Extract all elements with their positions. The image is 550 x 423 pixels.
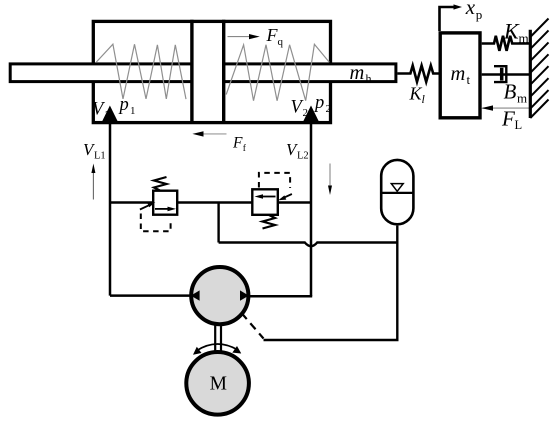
- svg-text:f: f: [243, 143, 247, 154]
- svg-text:F: F: [232, 134, 243, 151]
- svg-text:2: 2: [326, 103, 332, 115]
- damper B_m: [482, 66, 530, 82]
- wire: dashed drain diagonal to pump: [242, 313, 264, 339]
- svg-text:m: m: [451, 63, 466, 85]
- arrow F_q: [228, 34, 260, 39]
- spring left chamber (inside cylinder): [96, 44, 186, 99]
- wire: left pipe vertical: [109, 124, 112, 296]
- piston rod left: [10, 64, 192, 82]
- svg-text:m: m: [350, 62, 365, 84]
- svg-text:F: F: [501, 106, 515, 130]
- relief valve left adjust arrow: [140, 202, 155, 209]
- pump (bidirectional): [191, 267, 249, 324]
- relief valve right adjust arrow: [278, 194, 292, 200]
- relief valve left (box): [153, 191, 177, 215]
- spring K_m (mass to wall): [482, 36, 530, 51]
- svg-text:m: m: [517, 91, 527, 106]
- label p1: [118, 95, 136, 117]
- wire: bottom drain horizontal: [264, 339, 399, 341]
- label p2: [313, 93, 331, 115]
- svg-text:p: p: [313, 93, 324, 113]
- svg-text:l: l: [422, 92, 426, 106]
- svg-text:K: K: [503, 19, 520, 44]
- relief valve right spring: [263, 215, 276, 229]
- label F_f: [232, 134, 247, 154]
- label F_L: [501, 106, 522, 132]
- svg-text:t: t: [467, 72, 471, 87]
- label F_q: [266, 25, 284, 48]
- relief valve left pilot dashed line: [141, 214, 171, 232]
- svg-text:h: h: [366, 72, 372, 86]
- hydraulic cylinder body: [93, 21, 330, 122]
- pump-motor shaft: [215, 324, 221, 353]
- port arrow V1 p1 (left, up triangle): [101, 106, 118, 124]
- svg-text:L1: L1: [94, 151, 106, 162]
- spring K_l (rod to mass): [397, 66, 438, 82]
- wire: drain horizontal with hop over right pipe: [219, 243, 398, 247]
- svg-text:2: 2: [303, 107, 309, 119]
- relief valve right (box): [252, 189, 277, 215]
- arrow F_L: [481, 105, 529, 110]
- label x_p: [465, 0, 483, 22]
- svg-text:M: M: [210, 373, 227, 394]
- piston: [192, 20, 224, 124]
- rotation arrow arc: [193, 344, 241, 355]
- arrow F_f: [192, 131, 226, 136]
- motor M: [186, 352, 249, 415]
- wire: drain drop from valve line: [217, 203, 219, 243]
- wire: pump right port line: [250, 295, 312, 298]
- svg-text:L2: L2: [297, 151, 309, 162]
- svg-text:1: 1: [130, 105, 136, 117]
- accumulator: [381, 160, 413, 224]
- label V1: [92, 99, 110, 121]
- wire: pump left port line: [110, 294, 190, 297]
- arrow x_p: [440, 4, 463, 31]
- label B_m: [504, 80, 528, 106]
- piston rod right (mass m_h): [224, 64, 396, 82]
- relief valve right pilot dashed line: [259, 173, 290, 188]
- svg-text:1: 1: [104, 109, 110, 121]
- label K_m: [503, 19, 529, 46]
- svg-text:B: B: [504, 80, 517, 104]
- wire: right pipe vertical: [310, 124, 313, 296]
- label m_h: [350, 62, 372, 86]
- svg-text:m: m: [519, 31, 529, 46]
- svg-text:p: p: [118, 95, 129, 115]
- svg-text:K: K: [409, 84, 423, 104]
- leakage arrow right side (down arrow): [328, 164, 332, 196]
- label V_L1: [83, 140, 106, 162]
- label V2: [291, 97, 309, 119]
- spring right chamber (inside cylinder): [226, 44, 329, 100]
- label V_L2: [286, 140, 309, 162]
- mass m_t: [440, 33, 480, 118]
- wall (fixed support): [530, 19, 548, 119]
- wire: valve line horizontal: [110, 201, 311, 203]
- wire: accumulator drop pipe: [396, 226, 398, 340]
- relief valve left spring: [154, 177, 167, 191]
- svg-text:L: L: [515, 118, 523, 132]
- svg-text:p: p: [476, 7, 483, 22]
- port arrow V2 p2 (right, up triangle): [302, 106, 319, 124]
- label K_l: [409, 84, 426, 106]
- leakage arrow down-left side (up arrow): [91, 164, 95, 200]
- svg-text:x: x: [465, 0, 476, 19]
- svg-text:q: q: [278, 36, 284, 48]
